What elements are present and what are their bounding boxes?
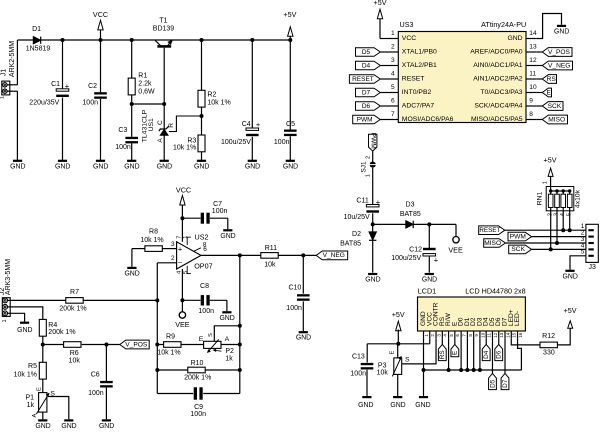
svg-text:0,6W: 0,6W [138, 89, 155, 96]
svg-text:V_NEG: V_NEG [548, 62, 570, 69]
svg-text:C2: C2 [88, 83, 97, 90]
svg-text:C8: C8 [200, 283, 209, 290]
svg-text:C13: C13 [352, 354, 365, 361]
svg-text:C6: C6 [91, 371, 100, 378]
svg-text:PWM: PWM [510, 233, 526, 240]
svg-text:15: 15 [512, 332, 517, 338]
svg-text:5: 5 [183, 271, 189, 274]
svg-text:13: 13 [499, 332, 504, 338]
svg-text:6: 6 [203, 246, 207, 253]
svg-text:GND: GND [283, 163, 298, 170]
svg-text:200k 1%: 200k 1% [184, 375, 211, 382]
svg-text:A: A [157, 138, 164, 143]
svg-text:GND: GND [507, 35, 522, 42]
svg-text:10k 1%: 10k 1% [14, 372, 37, 379]
svg-text:VEE: VEE [448, 245, 463, 254]
svg-text:4x10k: 4x10k [574, 189, 581, 208]
svg-text:3: 3 [391, 57, 395, 64]
svg-text:GND: GND [124, 163, 139, 170]
svg-text:3: 3 [171, 241, 175, 248]
svg-text:10k 1%: 10k 1% [207, 100, 230, 107]
svg-text:10k: 10k [377, 369, 389, 376]
svg-text:RESET: RESET [352, 76, 374, 83]
svg-text:SJ1: SJ1 [360, 161, 367, 172]
svg-text:6: 6 [391, 98, 395, 105]
svg-text:11: 11 [529, 71, 536, 78]
svg-text:100n: 100n [88, 390, 104, 397]
svg-text:GND: GND [194, 163, 209, 170]
svg-text:10k: 10k [264, 262, 276, 269]
svg-text:S: S [208, 333, 214, 337]
svg-text:200k 1%: 200k 1% [48, 329, 75, 336]
svg-text:C9: C9 [194, 404, 203, 411]
svg-text:10u/25V: 10u/25V [344, 214, 370, 221]
svg-text:100n: 100n [82, 100, 98, 107]
svg-text:C1: C1 [51, 81, 60, 88]
svg-text:9: 9 [474, 334, 479, 337]
svg-text:BD139: BD139 [153, 26, 175, 33]
svg-text:330: 330 [543, 349, 555, 356]
svg-text:+: + [65, 82, 70, 91]
svg-text:+5V: +5V [564, 306, 577, 315]
svg-text:+5V: +5V [544, 156, 557, 165]
svg-text:D5: D5 [489, 379, 496, 388]
svg-text:MISO: MISO [548, 116, 565, 123]
svg-text:R12: R12 [542, 333, 555, 340]
svg-text:5: 5 [449, 334, 454, 337]
svg-text:5: 5 [581, 249, 585, 256]
svg-text:MISO/ADC5/PA5: MISO/ADC5/PA5 [471, 116, 523, 123]
svg-text:ADC7/PA7: ADC7/PA7 [402, 103, 435, 110]
svg-text:TL431CLP: TL431CLP [142, 109, 149, 142]
svg-text:OP07: OP07 [194, 261, 212, 270]
svg-text:E: E [37, 387, 43, 391]
svg-text:1: 1 [366, 174, 372, 177]
svg-text:100n: 100n [190, 411, 206, 418]
svg-text:T0/ADC3/PA3: T0/ADC3/PA3 [480, 89, 522, 96]
svg-text:100u/25V: 100u/25V [391, 255, 421, 262]
svg-text:220u/35V: 220u/35V [29, 100, 59, 107]
svg-text:D2: D2 [352, 231, 361, 238]
svg-text:RN1: RN1 [537, 191, 544, 205]
svg-text:10k: 10k [69, 358, 81, 365]
svg-text:VCC: VCC [402, 35, 416, 42]
svg-text:D4: D4 [362, 62, 371, 69]
svg-text:13: 13 [529, 44, 537, 51]
svg-text:12: 12 [493, 332, 498, 338]
svg-text:GND: GND [10, 163, 25, 170]
svg-text:R6: R6 [70, 350, 79, 357]
svg-text:+5V: +5V [392, 310, 405, 319]
svg-text:1k: 1k [27, 402, 35, 409]
svg-text:2: 2 [366, 156, 372, 159]
svg-text:C12: C12 [409, 247, 422, 254]
svg-text:2: 2 [391, 44, 395, 51]
svg-text:D5: D5 [362, 49, 371, 56]
svg-text:GND: GND [358, 402, 373, 409]
svg-text:10: 10 [480, 332, 485, 338]
svg-text:RS: RS [547, 76, 557, 83]
svg-text:1: 1 [391, 30, 395, 37]
svg-text:V_POS: V_POS [125, 341, 148, 348]
svg-text:−: − [178, 258, 183, 267]
svg-text:C4: C4 [242, 121, 251, 128]
svg-text:US1: US1 [148, 118, 155, 131]
svg-text:LCD HD44780 2x8: LCD HD44780 2x8 [465, 287, 525, 296]
svg-text:R3: R3 [187, 137, 196, 144]
svg-text:E: E [452, 351, 459, 355]
svg-text:VEE: VEE [175, 320, 190, 329]
svg-text:14: 14 [505, 332, 510, 338]
svg-text:V_POS: V_POS [548, 49, 571, 56]
svg-text:1: 1 [183, 236, 189, 239]
svg-text:D7: D7 [362, 89, 371, 96]
svg-text:AIN0/ADC1/PA1: AIN0/ADC1/PA1 [473, 62, 523, 69]
svg-text:11: 11 [487, 332, 492, 337]
svg-text:MISO: MISO [484, 240, 501, 247]
svg-text:INT0/PB2: INT0/PB2 [402, 89, 432, 96]
svg-text:100n: 100n [274, 139, 290, 146]
svg-text:2: 2 [171, 255, 175, 262]
svg-text:PWM: PWM [369, 133, 376, 149]
svg-text:R2: R2 [207, 92, 216, 99]
svg-text:XTAL1/PB0: XTAL1/PB0 [402, 49, 437, 56]
svg-text:ATtiny24A-PU: ATtiny24A-PU [481, 20, 526, 29]
svg-text:SCK/ADC4/PA4: SCK/ADC4/PA4 [474, 103, 522, 110]
svg-text:LCD1: LCD1 [418, 287, 436, 296]
svg-text:16: 16 [518, 332, 523, 338]
svg-text:GND: GND [157, 163, 172, 170]
svg-text:R4: R4 [48, 322, 57, 329]
svg-text:7: 7 [176, 236, 182, 239]
svg-text:R5: R5 [28, 363, 37, 370]
svg-text:A: A [32, 414, 38, 418]
svg-text:RS: RS [439, 350, 446, 359]
svg-text:7: 7 [462, 334, 467, 337]
svg-text:C10: C10 [288, 285, 301, 292]
svg-text:1k: 1k [225, 356, 233, 363]
svg-text:R7: R7 [70, 289, 79, 296]
svg-text:8: 8 [468, 334, 473, 337]
svg-text:GND: GND [422, 277, 437, 284]
svg-text:D1: D1 [32, 26, 41, 33]
svg-text:RESET: RESET [402, 76, 425, 83]
svg-text:ARK2-5MM: ARK2-5MM [9, 41, 16, 77]
svg-text:D6: D6 [362, 103, 371, 110]
svg-text:GND: GND [99, 423, 114, 430]
svg-text:GND: GND [17, 327, 32, 334]
svg-text:GND: GND [415, 402, 430, 409]
svg-text:GND: GND [35, 423, 50, 430]
svg-text:S: S [405, 357, 410, 364]
svg-text:10: 10 [529, 84, 537, 91]
svg-text:100n: 100n [286, 305, 302, 312]
svg-text:VCC: VCC [176, 185, 191, 194]
svg-text:2: 2 [430, 334, 435, 337]
svg-text:C5: C5 [286, 121, 295, 128]
svg-text:AREF/ADC0/PA0: AREF/ADC0/PA0 [470, 49, 523, 56]
svg-text:GND: GND [365, 277, 380, 284]
svg-text:100n: 100n [115, 144, 131, 151]
svg-text:T1: T1 [159, 18, 167, 25]
svg-text:E: E [389, 351, 395, 355]
svg-text:+5V: +5V [283, 10, 296, 19]
svg-text:100n: 100n [198, 308, 214, 315]
svg-text:+: + [434, 255, 439, 264]
svg-text:J1: J1 [0, 69, 7, 77]
svg-text:BAT85: BAT85 [400, 211, 421, 218]
svg-text:+5V: +5V [374, 0, 387, 7]
svg-text:PWM: PWM [357, 116, 373, 123]
svg-text:1: 1 [543, 181, 549, 184]
svg-text:J3: J3 [588, 264, 596, 271]
svg-text:9: 9 [529, 98, 533, 105]
svg-text:1N5819: 1N5819 [26, 46, 51, 53]
svg-text:+: + [256, 120, 261, 129]
svg-text:GND: GND [296, 335, 311, 342]
svg-text:R11: R11 [265, 245, 277, 252]
svg-text:12: 12 [529, 57, 537, 64]
svg-text:XTAL2/PB1: XTAL2/PB1 [402, 62, 437, 69]
svg-text:GND: GND [61, 423, 76, 430]
svg-text:200k 1%: 200k 1% [59, 306, 86, 313]
svg-text:GND: GND [563, 273, 578, 280]
svg-text:5: 5 [391, 84, 395, 91]
svg-text:R8: R8 [149, 228, 158, 235]
svg-text:D6: D6 [496, 350, 503, 359]
svg-text:LED-: LED- [514, 311, 521, 326]
svg-text:SCK: SCK [511, 246, 525, 253]
svg-text:D3: D3 [406, 201, 415, 208]
svg-text:J2: J2 [0, 288, 6, 296]
svg-text:8: 8 [529, 111, 533, 118]
svg-text:GND: GND [390, 402, 405, 409]
svg-text:1: 1 [0, 96, 6, 99]
svg-text:+: + [376, 197, 381, 206]
svg-text:100n: 100n [212, 208, 228, 215]
svg-text:R: R [168, 123, 175, 128]
svg-text:10k 1%: 10k 1% [173, 145, 196, 152]
svg-text:C: C [157, 120, 164, 125]
svg-text:GND: GND [220, 233, 235, 240]
svg-text:AIN1/ADC2/PA2: AIN1/ADC2/PA2 [473, 76, 523, 83]
svg-text:V_NEG: V_NEG [323, 252, 345, 259]
svg-text:MOSI/ADC6/PA6: MOSI/ADC6/PA6 [402, 116, 454, 123]
svg-text:2.2k: 2.2k [138, 81, 152, 88]
svg-text:P2: P2 [225, 348, 234, 355]
svg-text:6: 6 [455, 334, 460, 337]
svg-text:BAT85: BAT85 [340, 240, 361, 247]
svg-text:VCC: VCC [93, 10, 108, 19]
svg-text:4: 4 [443, 334, 448, 337]
svg-text:E: E [546, 89, 551, 96]
svg-text:1: 1 [424, 334, 429, 337]
svg-text:+: + [178, 244, 183, 253]
svg-text:10k 1%: 10k 1% [157, 350, 180, 357]
svg-text:GND: GND [219, 315, 234, 322]
svg-text:R1: R1 [138, 73, 147, 80]
svg-text:10k 1%: 10k 1% [140, 237, 163, 244]
svg-text:C3: C3 [118, 127, 127, 134]
svg-text:100u/25V: 100u/25V [221, 139, 251, 146]
svg-text:E: E [199, 336, 204, 343]
svg-text:P1: P1 [25, 394, 34, 401]
svg-text:GND: GND [245, 163, 260, 170]
svg-text:D7: D7 [502, 379, 509, 388]
svg-text:GND: GND [55, 163, 70, 170]
svg-text:4: 4 [391, 71, 395, 78]
svg-text:GND: GND [554, 28, 569, 35]
svg-text:C11: C11 [356, 198, 368, 205]
svg-text:3: 3 [436, 334, 441, 337]
svg-text:GND: GND [93, 163, 108, 170]
svg-text:A: A [225, 336, 230, 343]
svg-text:R10: R10 [191, 360, 204, 367]
svg-text:D4: D4 [483, 350, 490, 359]
svg-text:R9: R9 [166, 334, 175, 341]
svg-text:1: 1 [2, 319, 8, 322]
svg-text:SCK: SCK [548, 103, 562, 110]
svg-text:US3: US3 [400, 20, 414, 29]
svg-text:GND: GND [124, 270, 139, 277]
svg-text:US2: US2 [195, 233, 209, 242]
svg-text:7: 7 [391, 111, 395, 118]
svg-text:100n: 100n [350, 370, 366, 377]
svg-text:S: S [50, 391, 55, 398]
svg-text:14: 14 [529, 30, 537, 37]
svg-text:RESET: RESET [479, 227, 500, 234]
